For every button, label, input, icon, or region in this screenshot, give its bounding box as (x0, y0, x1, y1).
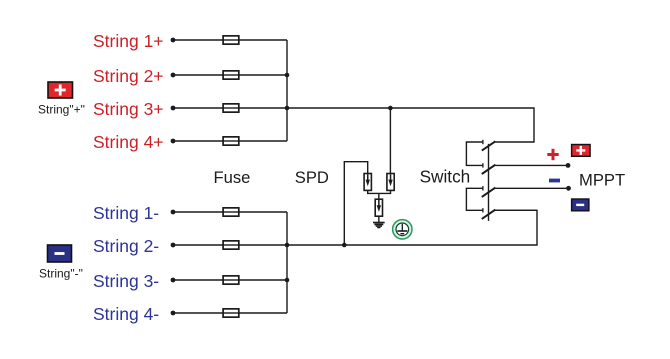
badge positive terminal (572, 145, 591, 157)
node string1- (171, 210, 176, 215)
surge arrester SPD3 (middle) (375, 199, 382, 216)
badge string minus (48, 245, 72, 262)
wire SPD right riser (389, 108, 391, 174)
fuse F1 (223, 36, 239, 44)
wire string4- (173, 312, 287, 314)
protective earth badge (393, 220, 412, 239)
wire negative feeder (287, 210, 537, 245)
node string3+ (171, 106, 176, 111)
wire string1- (173, 211, 287, 213)
wire switch S4 output (495, 209, 537, 211)
fuse F6 (223, 241, 239, 249)
wire negative bus vertical (286, 212, 288, 313)
junction positive feeder / SPD (388, 106, 393, 111)
surge arrester SPD2 (right) (387, 174, 394, 191)
junction positive bus row2 (285, 73, 290, 78)
switch contact tick S1 (482, 140, 484, 144)
fuse F8 (223, 309, 239, 317)
fuse F3 (223, 104, 239, 112)
badge string plus (48, 82, 73, 98)
svg-text:Fuse: Fuse (214, 168, 251, 187)
switch pole bracket 2 (466, 188, 482, 210)
node string4+ (171, 139, 176, 144)
svg-text:String 4-: String 4- (93, 304, 159, 324)
node MPPT positive (566, 163, 571, 168)
wire MPPT negative (495, 187, 568, 189)
switch gang link (488, 144, 490, 221)
switch blade S1 (482, 141, 496, 150)
surge arrester SPD1 (left) (364, 174, 371, 191)
svg-text:String"+": String"+" (38, 103, 85, 117)
junction negative feeder / SPD (342, 243, 347, 248)
node string4- (171, 311, 176, 316)
wire string1+ (173, 39, 287, 41)
wire ground stub (378, 216, 380, 222)
wire MPPT positive (495, 164, 568, 166)
svg-text:String 1+: String 1+ (93, 31, 164, 51)
junction negative bus row2 (285, 243, 290, 248)
node string2+ (171, 73, 176, 78)
wire string3- (173, 279, 287, 281)
switch contact tick S4 (482, 208, 484, 212)
wire positive feeder (287, 108, 534, 142)
fuse F4 (223, 137, 239, 145)
wire string3+ (173, 107, 287, 109)
switch blade S4 (482, 210, 496, 219)
polarity plus symbol (547, 149, 558, 160)
svg-text:String 3-: String 3- (93, 271, 159, 291)
svg-text:String 1-: String 1- (93, 203, 159, 223)
fuse F5 (223, 208, 239, 216)
junction positive bus row3 (285, 106, 290, 111)
wire string2+ (173, 74, 287, 76)
svg-text:String 3+: String 3+ (93, 99, 164, 119)
svg-text:Switch: Switch (420, 167, 471, 187)
switch contact tick S2 (482, 163, 484, 167)
badge negative terminal (572, 199, 589, 211)
switch blade S2 (482, 165, 496, 174)
node string2- (171, 243, 176, 248)
wire SPD middle drop (378, 193, 380, 199)
switch pole bracket 1 (466, 142, 482, 165)
svg-text:String 2+: String 2+ (93, 66, 164, 86)
svg-text:String 4+: String 4+ (93, 132, 164, 152)
polarity minus symbol (549, 179, 560, 183)
svg-text:MPPT: MPPT (579, 170, 625, 189)
wire string4+ (173, 140, 287, 142)
node string3- (171, 278, 176, 283)
switch blade S3 (482, 188, 496, 197)
switch contact tick S3 (482, 186, 484, 190)
node MPPT negative (566, 186, 571, 191)
fuse F2 (223, 71, 239, 79)
node string1+ (171, 38, 176, 43)
svg-text:String"-": String"-" (39, 267, 83, 281)
wire string2- (173, 244, 287, 246)
fuse F7 (223, 276, 239, 284)
ground (373, 223, 385, 228)
wire positive bus vertical (286, 40, 288, 141)
wire SPD bottom link (368, 190, 391, 193)
svg-text:SPD: SPD (295, 168, 329, 187)
junction negative bus row3 (285, 278, 290, 283)
svg-text:String 2-: String 2- (93, 236, 159, 256)
wire SPD left riser (344, 162, 367, 245)
